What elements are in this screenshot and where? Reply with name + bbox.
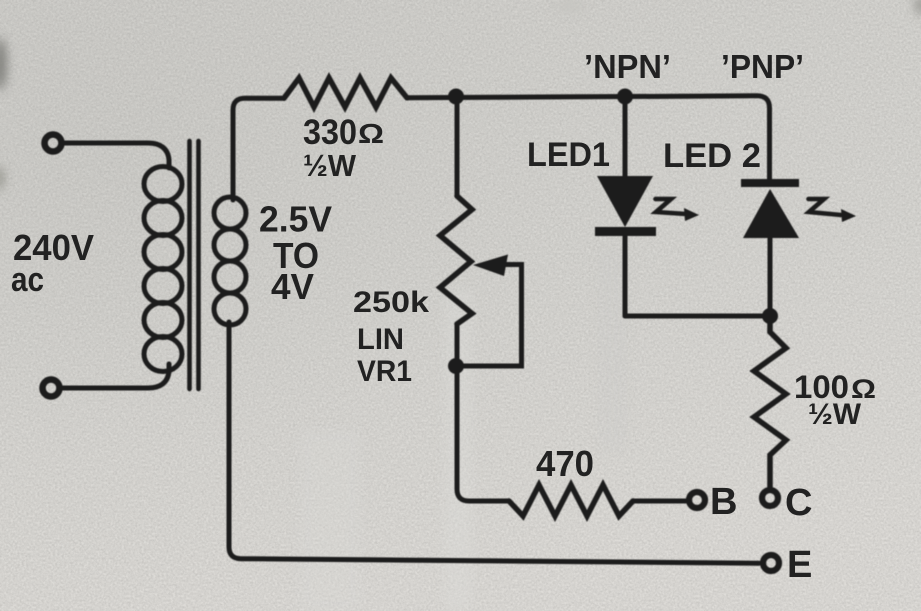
wire secondary bottom to terminal E [229,322,759,563]
wire secondary top to 330 resistor [233,98,284,200]
svg-text:½W: ½W [808,398,862,431]
LED2 triangle [743,189,799,238]
wire 330 resistor to PNP corner [407,96,770,179]
wire LED1 to LED2 bottom rail [625,314,770,319]
resistor 330ohm [284,78,407,107]
LED1 cathode bar [595,227,656,236]
junction dot VR1 bottom [448,358,464,374]
svg-text:’PNP’: ’PNP’ [721,48,804,85]
svg-text:Ω: Ω [358,118,384,149]
terminal 240V top [45,135,62,152]
wire primary bottom lead [61,364,169,388]
wire VR1 to 470 resistor [457,366,509,501]
terminal 240V bottom [43,380,60,397]
svg-text:’NPN’: ’NPN’ [584,48,671,85]
svg-text:2.5V: 2.5V [259,199,332,240]
terminal E [763,555,779,571]
VR1 wiper arrowhead [473,255,508,277]
svg-text:330: 330 [303,113,357,152]
svg-text:C: C [785,482,812,524]
wire LED2 anode down [768,238,773,316]
junction dot VR1 top [448,89,464,105]
wire VR1 bottom [455,324,460,366]
svg-text:4V: 4V [271,266,314,307]
transformer T1 secondary winding [214,197,246,325]
VR1 wiper arm [456,265,522,367]
svg-text:250k: 250k [353,286,429,319]
wire primary top lead [62,143,169,168]
svg-text:E: E [787,544,812,586]
potentiometer VR1 track [440,196,472,324]
wire 470 to terminal B [633,499,686,504]
svg-text:LIN: LIN [357,323,404,356]
node NPN junction dot [617,89,633,105]
svg-text:B: B [710,481,737,523]
svg-text:LED1: LED1 [527,136,610,174]
svg-text:VR1: VR1 [357,355,412,388]
wire LED1 cathode down [623,236,628,316]
resistor 100ohm [754,316,786,488]
LED1 anode triangle [597,176,653,227]
wire NPN node to LED1 [623,97,628,176]
terminal B [689,492,705,508]
LED2 cathode bar [741,179,799,187]
wire NPN node down to VR1 [455,97,460,196]
terminal C [762,490,778,506]
junction dot LED bottom node [762,308,778,324]
svg-text:LED 2: LED 2 [663,137,761,175]
svg-text:470: 470 [536,443,594,484]
resistor 470 [509,485,633,516]
transformer T1 core [190,141,199,389]
svg-text:ac: ac [11,261,44,299]
transformer T1 primary winding [144,167,182,372]
LED1 light arrow [656,199,700,221]
svg-text:½W: ½W [303,148,357,183]
LED2 light arrow [809,199,857,222]
